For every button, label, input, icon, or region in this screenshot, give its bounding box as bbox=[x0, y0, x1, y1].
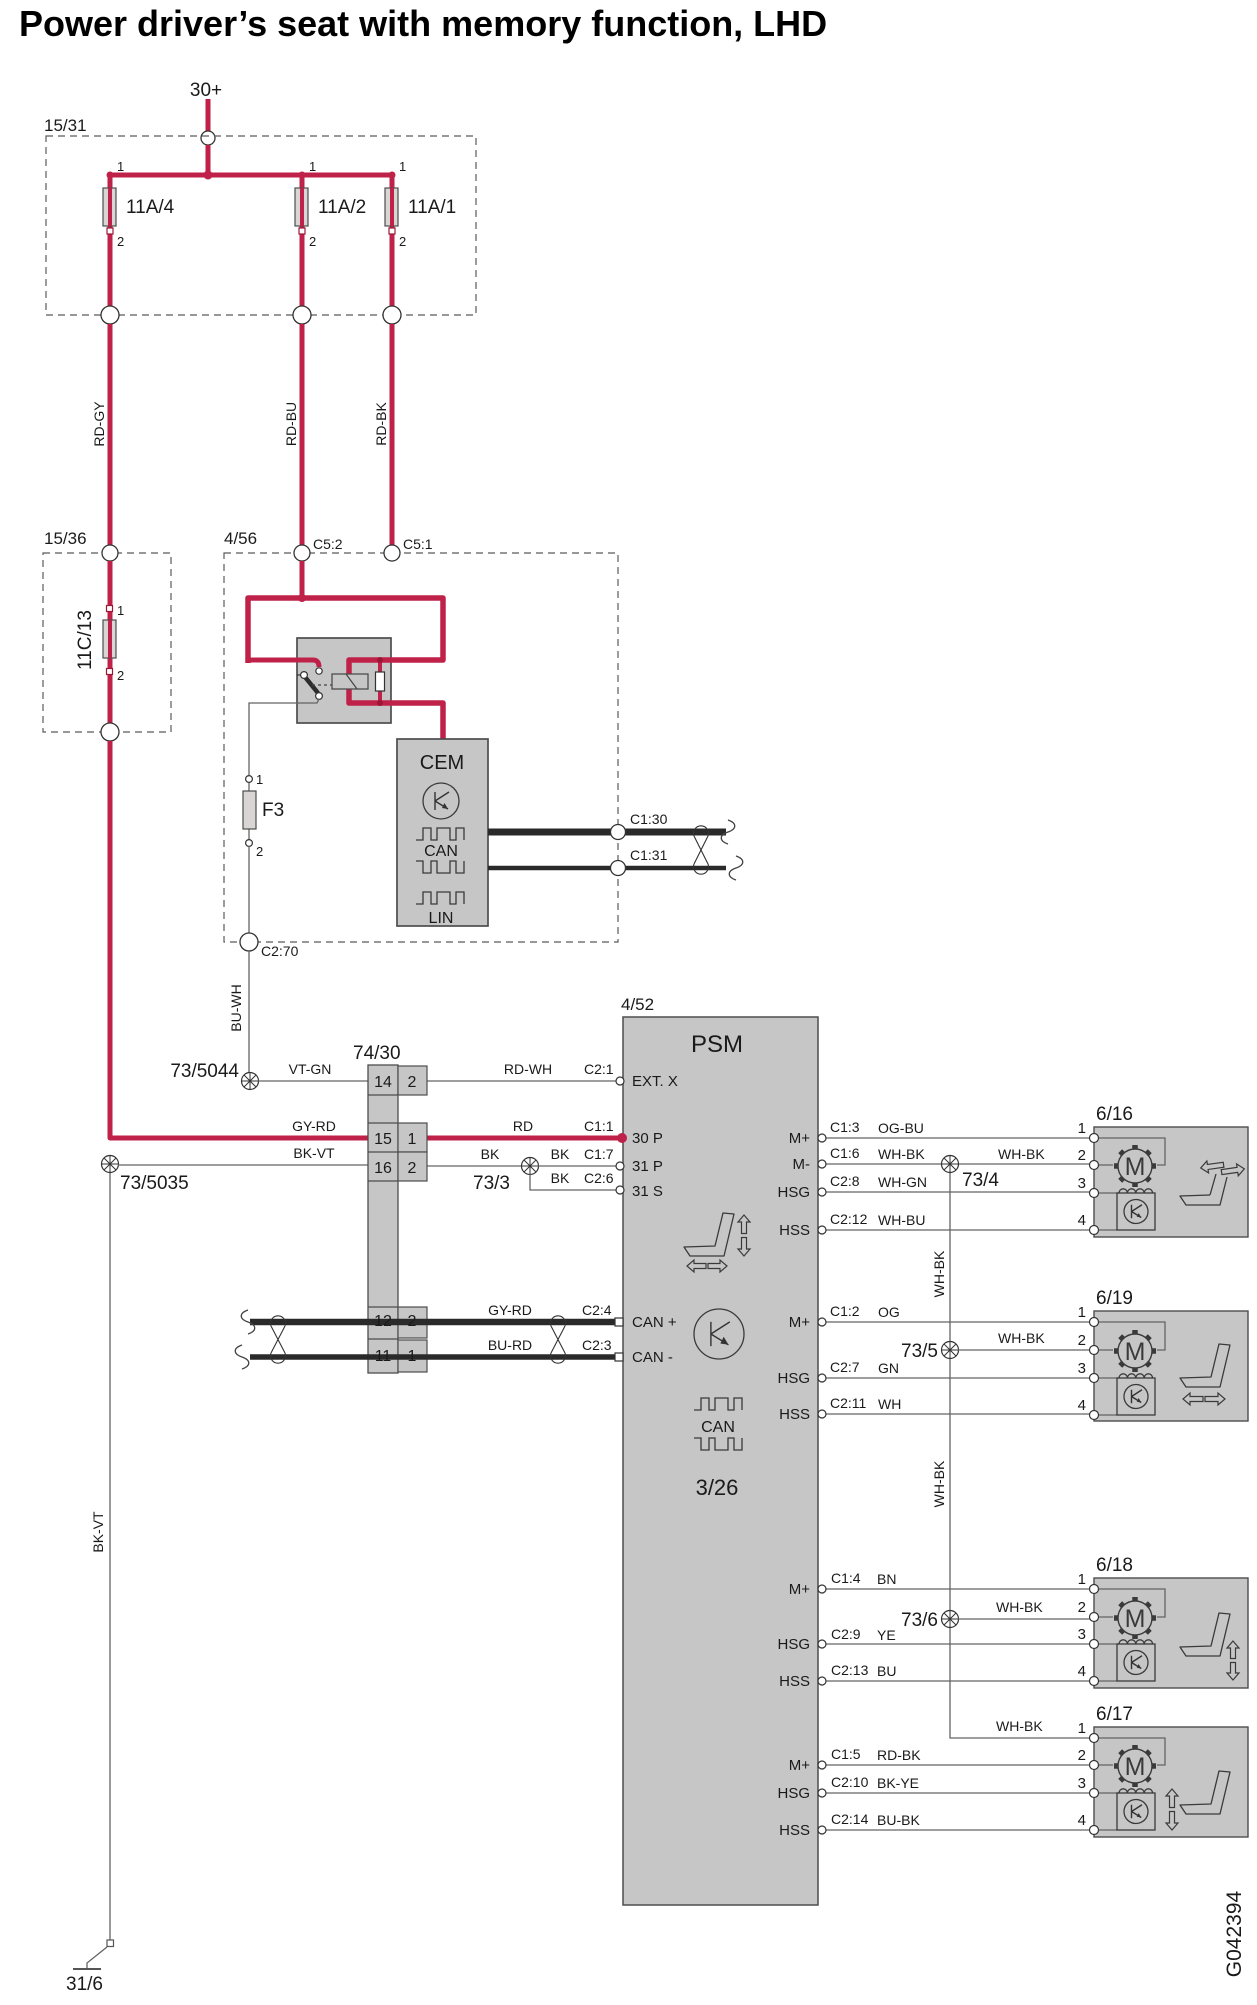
svg-text:HSS: HSS bbox=[779, 1822, 810, 1839]
svg-text:1: 1 bbox=[117, 159, 124, 174]
fuse F3 bbox=[246, 776, 253, 783]
wire GY-RD / RD main feed to PSM bbox=[110, 741, 620, 1138]
twisted pair symbol bbox=[694, 826, 709, 836]
6/17 pin 2 bbox=[1090, 1761, 1099, 1770]
svg-text:73/5035: 73/5035 bbox=[120, 1173, 189, 1194]
svg-text:C2:12: C2:12 bbox=[830, 1211, 868, 1227]
svg-text:4/56: 4/56 bbox=[224, 529, 257, 548]
svg-text:4: 4 bbox=[1078, 1397, 1086, 1414]
connector C5:1 bbox=[384, 545, 400, 561]
wire WH-BK to 6/18 bbox=[958, 1618, 1090, 1620]
pin PSM right y=1589 bbox=[818, 1585, 826, 1593]
connector 74/30 pin 16 bbox=[398, 1152, 427, 1181]
svg-text:M: M bbox=[1125, 1753, 1146, 1781]
wire OG-BU C1:3 bbox=[822, 1137, 1090, 1139]
svg-text:1: 1 bbox=[1078, 1571, 1086, 1588]
svg-text:6/19: 6/19 bbox=[1096, 1288, 1133, 1309]
svg-text:31 S: 31 S bbox=[632, 1183, 663, 1200]
6/17 pin 1 bbox=[1090, 1734, 1099, 1743]
svg-text:C2:8: C2:8 bbox=[830, 1173, 860, 1189]
svg-text:WH-BK: WH-BK bbox=[998, 1146, 1045, 1162]
junction dot bbox=[299, 172, 306, 179]
svg-text:RD-BU: RD-BU bbox=[283, 402, 299, 446]
6/16 position sensor bbox=[1117, 1193, 1155, 1230]
svg-text:30 P: 30 P bbox=[632, 1130, 663, 1147]
svg-text:WH-BU: WH-BU bbox=[878, 1212, 925, 1228]
connector circle 15/36 top bbox=[102, 545, 118, 561]
svg-text:C1:7: C1:7 bbox=[584, 1146, 614, 1162]
svg-text:VT-GN: VT-GN bbox=[289, 1061, 332, 1077]
svg-text:31 P: 31 P bbox=[632, 1158, 663, 1175]
6/16 pin 3 bbox=[1090, 1189, 1099, 1198]
wire bus 30+ bbox=[110, 173, 392, 178]
PSM CAN symbol bbox=[694, 1398, 742, 1410]
svg-text:C5:1: C5:1 bbox=[403, 536, 433, 552]
svg-text:WH-GN: WH-GN bbox=[878, 1174, 927, 1190]
svg-text:EXT. X: EXT. X bbox=[632, 1073, 678, 1090]
svg-text:G042394: G042394 bbox=[1223, 1890, 1246, 1977]
svg-text:3: 3 bbox=[1078, 1360, 1086, 1377]
6/19 seat icon bbox=[1180, 1344, 1230, 1387]
svg-text:4: 4 bbox=[1078, 1812, 1086, 1829]
fuse 11C/13 bbox=[107, 606, 113, 612]
svg-text:C1:30: C1:30 bbox=[630, 811, 668, 827]
svg-text:M+: M+ bbox=[789, 1130, 810, 1147]
svg-text:73/3: 73/3 bbox=[473, 1173, 510, 1194]
wire F3 to C2:70 bbox=[248, 846, 250, 933]
6/19 pin 3 bbox=[1090, 1374, 1099, 1383]
junction dot relay bus bbox=[298, 594, 306, 602]
svg-text:M+: M+ bbox=[789, 1314, 810, 1331]
svg-text:C2:3: C2:3 bbox=[582, 1337, 612, 1353]
svg-text:3/26: 3/26 bbox=[696, 1475, 739, 1500]
connector 74/30 pin 12 bbox=[398, 1307, 427, 1338]
svg-text:M+: M+ bbox=[789, 1581, 810, 1598]
CEM CAN symbol bbox=[416, 828, 464, 840]
relay suppression resistor bbox=[378, 660, 382, 672]
svg-text:2: 2 bbox=[408, 1313, 417, 1330]
wire WH-BK trunk bbox=[950, 1164, 1090, 1738]
svg-text:LIN: LIN bbox=[429, 910, 454, 927]
wire 30+ feed bbox=[206, 99, 211, 131]
svg-text:C2:1: C2:1 bbox=[584, 1061, 614, 1077]
wire BN C1:4 bbox=[822, 1588, 1090, 1590]
svg-text:M: M bbox=[1125, 1338, 1146, 1366]
svg-text:C1:1: C1:1 bbox=[584, 1118, 614, 1134]
svg-text:11A/4: 11A/4 bbox=[126, 197, 175, 218]
connector circle bottom of 15/31 (11A/4) bbox=[101, 306, 119, 324]
relay switch contact bbox=[316, 668, 322, 674]
wire BK to 31S bbox=[530, 1174, 619, 1190]
svg-text:2: 2 bbox=[117, 234, 124, 249]
svg-text:C1:4: C1:4 bbox=[831, 1570, 861, 1586]
pin PSM right y=1765 bbox=[818, 1761, 826, 1769]
6/17 motor M bbox=[1118, 1749, 1152, 1783]
fuse 11A/1 bbox=[390, 175, 395, 306]
svg-text:11A/1: 11A/1 bbox=[408, 197, 456, 218]
wire YE C2:9 bbox=[822, 1643, 1090, 1645]
svg-text:2: 2 bbox=[256, 844, 263, 859]
6/19 pin 1 bbox=[1090, 1318, 1099, 1327]
pin PSM right y=1164 bbox=[818, 1160, 826, 1168]
svg-text:1: 1 bbox=[408, 1131, 417, 1148]
wire BU-BK C2:14 bbox=[822, 1829, 1090, 1831]
relay switch arm bbox=[297, 674, 304, 676]
svg-text:M+: M+ bbox=[789, 1757, 810, 1774]
wire break bbox=[721, 820, 735, 844]
splice 73/6 bbox=[942, 1611, 959, 1628]
twisted pair symbol bbox=[551, 1316, 566, 1326]
pin PSM right y=1793 bbox=[818, 1789, 826, 1797]
relay coil bbox=[332, 674, 368, 689]
6/16 pin 4 bbox=[1090, 1226, 1099, 1235]
svg-text:M-: M- bbox=[793, 1156, 811, 1173]
svg-text:BK: BK bbox=[551, 1146, 570, 1162]
svg-text:2: 2 bbox=[1078, 1332, 1086, 1349]
svg-text:RD-BK: RD-BK bbox=[877, 1747, 921, 1763]
connector C1:30 bbox=[611, 825, 626, 840]
connector C5:2 bbox=[294, 545, 310, 561]
pin PSM right y=1378 bbox=[818, 1374, 826, 1382]
wire CAN + GY-RD bbox=[250, 1319, 617, 1326]
svg-text:BU-WH: BU-WH bbox=[228, 984, 244, 1031]
wire OG C1:2 bbox=[822, 1321, 1090, 1323]
svg-text:WH: WH bbox=[878, 1396, 901, 1412]
svg-text:1: 1 bbox=[408, 1348, 417, 1365]
connector circle at 15/31 top bbox=[201, 131, 215, 145]
6/19 motor wiring bbox=[1094, 1322, 1165, 1350]
svg-text:WH-BK: WH-BK bbox=[998, 1330, 1045, 1346]
CEM transistor symbol bbox=[423, 783, 459, 819]
svg-text:HSS: HSS bbox=[779, 1406, 810, 1423]
svg-text:14: 14 bbox=[374, 1074, 392, 1091]
svg-text:HSG: HSG bbox=[777, 1785, 810, 1802]
connector 74/30 pin 14 bbox=[398, 1066, 427, 1095]
svg-text:HSG: HSG bbox=[777, 1370, 810, 1387]
wire RD-BK C1:5 bbox=[822, 1764, 1090, 1766]
pin PSM right y=1230 bbox=[818, 1226, 826, 1234]
pin PSM right y=1192 bbox=[818, 1188, 826, 1196]
6/16 motor M bbox=[1118, 1149, 1152, 1183]
svg-text:4: 4 bbox=[1078, 1663, 1086, 1680]
svg-text:BU: BU bbox=[877, 1663, 896, 1679]
svg-text:12: 12 bbox=[374, 1313, 392, 1330]
svg-text:WH-BK: WH-BK bbox=[878, 1146, 925, 1162]
svg-text:GN: GN bbox=[878, 1360, 899, 1376]
wire into fuse box bbox=[206, 145, 211, 177]
svg-text:Power driver’s seat with memor: Power driver’s seat with memory function… bbox=[19, 3, 827, 44]
svg-text:15: 15 bbox=[374, 1131, 392, 1148]
svg-text:2: 2 bbox=[1078, 1599, 1086, 1616]
wire CAN high C1:30 bbox=[488, 829, 726, 836]
svg-text:C2:70: C2:70 bbox=[261, 943, 299, 959]
wire switch feed bbox=[246, 660, 319, 667]
svg-text:2: 2 bbox=[1078, 1147, 1086, 1164]
wire BK-YE C2:10 bbox=[822, 1792, 1090, 1794]
relay 4/56 body bbox=[297, 638, 391, 723]
splice 73/5 bbox=[942, 1342, 959, 1359]
pin C2:1 bbox=[616, 1077, 624, 1085]
svg-text:4: 4 bbox=[1078, 1212, 1086, 1229]
6/19 pin 2 bbox=[1090, 1346, 1099, 1355]
wire BK to 31P bbox=[538, 1165, 619, 1167]
svg-text:BN: BN bbox=[877, 1571, 896, 1587]
svg-text:C1:2: C1:2 bbox=[830, 1303, 860, 1319]
wire RD-GY bbox=[108, 324, 113, 545]
svg-text:6/17: 6/17 bbox=[1096, 1704, 1133, 1725]
svg-text:2: 2 bbox=[1078, 1747, 1086, 1764]
6/16 pin 1 bbox=[1090, 1134, 1099, 1143]
wire CAN - BU-RD bbox=[250, 1354, 617, 1360]
svg-text:30+: 30+ bbox=[190, 80, 222, 101]
svg-text:CEM: CEM bbox=[420, 752, 464, 774]
wire break bbox=[235, 1345, 249, 1369]
svg-text:BK-VT: BK-VT bbox=[293, 1145, 335, 1161]
svg-text:WH-BK: WH-BK bbox=[931, 1250, 947, 1297]
svg-text:OG-BU: OG-BU bbox=[878, 1120, 924, 1136]
wire WH-BK to 6/19 bbox=[958, 1349, 1090, 1351]
wire WH-GN C2:8 bbox=[822, 1191, 1090, 1193]
wire through 11C/13 bbox=[108, 561, 113, 724]
6/18 motor M bbox=[1118, 1601, 1152, 1635]
connector 74/30 pin 15 bbox=[398, 1123, 427, 1152]
connector 74/30 pin 11 bbox=[398, 1340, 427, 1372]
fuse 11A/4 bbox=[108, 175, 113, 306]
pin PSM right y=1138 bbox=[818, 1134, 826, 1142]
6/19 motor M bbox=[1118, 1334, 1152, 1368]
wire BK-VT to ground bbox=[109, 1173, 111, 1940]
svg-text:BU-RD: BU-RD bbox=[488, 1337, 532, 1353]
relay coil link (dashed) bbox=[312, 684, 332, 686]
wire BK to 73/3 bbox=[427, 1165, 522, 1167]
svg-text:3: 3 bbox=[1078, 1775, 1086, 1792]
svg-text:CAN: CAN bbox=[701, 1419, 735, 1436]
splice 73/3 bbox=[522, 1158, 539, 1175]
svg-text:4/52: 4/52 bbox=[621, 995, 654, 1014]
6/16 seat icon bbox=[1180, 1177, 1227, 1205]
svg-text:GY-RD: GY-RD bbox=[292, 1118, 336, 1134]
ground pin bbox=[107, 1940, 114, 1947]
svg-text:1: 1 bbox=[399, 159, 406, 174]
6/17 seat icon bbox=[1180, 1771, 1230, 1814]
pin PSM right y=1830 bbox=[818, 1826, 826, 1834]
svg-text:WH-BK: WH-BK bbox=[996, 1599, 1043, 1615]
wire break bbox=[729, 856, 743, 880]
svg-text:C2:4: C2:4 bbox=[582, 1302, 612, 1318]
6/18 pin 1 bbox=[1090, 1585, 1099, 1594]
pin PSM right y=1414 bbox=[818, 1410, 826, 1418]
svg-text:2: 2 bbox=[408, 1160, 417, 1177]
svg-text:WH-BK: WH-BK bbox=[996, 1718, 1043, 1734]
svg-text:C1:3: C1:3 bbox=[830, 1119, 860, 1135]
svg-text:C1:31: C1:31 bbox=[630, 847, 668, 863]
svg-text:C2:6: C2:6 bbox=[584, 1170, 614, 1186]
control module CEM bbox=[397, 739, 488, 926]
wire relay loop bbox=[248, 598, 443, 740]
6/18 pin 2 bbox=[1090, 1613, 1099, 1622]
svg-text:PSM: PSM bbox=[691, 1031, 743, 1058]
svg-text:2: 2 bbox=[408, 1074, 417, 1091]
6/19 pin 4 bbox=[1090, 1411, 1099, 1420]
ground 31/6 bbox=[73, 1968, 101, 1970]
svg-text:HSG: HSG bbox=[777, 1184, 810, 1201]
svg-text:C2:13: C2:13 bbox=[831, 1662, 869, 1678]
wire BU-WH bbox=[248, 951, 250, 1073]
wire break bbox=[241, 1310, 255, 1334]
fuse 11A/2 bbox=[300, 175, 305, 306]
svg-text:2: 2 bbox=[117, 668, 124, 683]
splice 73/5035 bbox=[102, 1156, 119, 1173]
pin PSM right y=1644 bbox=[818, 1640, 826, 1648]
svg-text:15/36: 15/36 bbox=[44, 529, 87, 548]
svg-text:1: 1 bbox=[1078, 1120, 1086, 1137]
svg-text:BK: BK bbox=[551, 1170, 570, 1186]
svg-text:RD-GY: RD-GY bbox=[91, 401, 107, 447]
svg-text:M: M bbox=[1125, 1153, 1146, 1181]
svg-text:C1:6: C1:6 bbox=[830, 1145, 860, 1161]
wire WH-BK C1:6 via 73/4 bbox=[822, 1163, 1090, 1165]
wire GN C2:7 bbox=[822, 1377, 1090, 1379]
pin C2:6 bbox=[616, 1186, 624, 1194]
svg-text:C5:2: C5:2 bbox=[313, 536, 343, 552]
svg-text:F3: F3 bbox=[262, 800, 284, 821]
svg-text:RD-BK: RD-BK bbox=[373, 402, 389, 446]
junction dot bbox=[389, 172, 396, 179]
wire CAN low C1:31 bbox=[488, 866, 726, 871]
connector circle bottom of 15/31 (11A/2) bbox=[293, 306, 311, 324]
pin C1:7 bbox=[616, 1162, 624, 1170]
svg-text:CAN +: CAN + bbox=[632, 1314, 677, 1331]
svg-text:HSS: HSS bbox=[779, 1222, 810, 1239]
svg-text:BU-BK: BU-BK bbox=[877, 1812, 920, 1828]
pin C1:1 (30P) bbox=[617, 1133, 627, 1143]
6/16 motor wiring bbox=[1094, 1138, 1165, 1165]
svg-text:73/4: 73/4 bbox=[962, 1170, 999, 1191]
svg-text:RD: RD bbox=[513, 1118, 533, 1134]
wire RD-BU bbox=[300, 324, 305, 545]
junction dot bbox=[107, 172, 114, 179]
svg-text:31/6: 31/6 bbox=[66, 1974, 103, 1995]
svg-text:11: 11 bbox=[375, 1348, 392, 1365]
6/18 position sensor bbox=[1117, 1644, 1155, 1681]
PSM seat icon bbox=[684, 1213, 734, 1256]
svg-text:6/18: 6/18 bbox=[1096, 1555, 1133, 1576]
6/18 pin 4 bbox=[1090, 1677, 1099, 1686]
svg-text:1: 1 bbox=[1078, 1304, 1086, 1321]
svg-text:C2:10: C2:10 bbox=[831, 1774, 869, 1790]
svg-text:C2:11: C2:11 bbox=[830, 1395, 867, 1411]
wire to ground bbox=[87, 1947, 107, 1969]
wire BU C2:13 bbox=[822, 1680, 1090, 1682]
svg-text:C2:9: C2:9 bbox=[831, 1626, 861, 1642]
6/17 pin 3 bbox=[1090, 1789, 1099, 1798]
svg-text:1: 1 bbox=[1078, 1720, 1086, 1737]
pin PSM right y=1322 bbox=[818, 1318, 826, 1326]
pin PSM right y=1681 bbox=[818, 1677, 826, 1685]
svg-text:M: M bbox=[1125, 1605, 1146, 1633]
svg-text:C1:5: C1:5 bbox=[831, 1746, 861, 1762]
6/19 position sensor bbox=[1117, 1378, 1155, 1415]
svg-text:BK-YE: BK-YE bbox=[877, 1775, 919, 1791]
svg-text:3: 3 bbox=[1078, 1626, 1086, 1643]
wire C5:2 to relay bus bbox=[300, 561, 305, 598]
svg-text:73/5044: 73/5044 bbox=[170, 1061, 239, 1082]
svg-text:C2:7: C2:7 bbox=[830, 1359, 860, 1375]
pin C2:4 bbox=[615, 1318, 623, 1326]
pin C2:3 bbox=[615, 1353, 623, 1361]
wire VT-GN bbox=[258, 1080, 368, 1082]
svg-text:74/30: 74/30 bbox=[353, 1043, 401, 1064]
svg-text:1: 1 bbox=[117, 603, 124, 618]
svg-text:WH-BK: WH-BK bbox=[931, 1460, 947, 1507]
6/18 seat icon bbox=[1180, 1613, 1230, 1656]
CEM LIN symbol bbox=[416, 892, 464, 904]
connector C2:70 bbox=[240, 933, 258, 951]
svg-text:16: 16 bbox=[374, 1160, 392, 1177]
splice 73/4 bbox=[942, 1156, 959, 1173]
svg-text:BK-VT: BK-VT bbox=[90, 1511, 106, 1553]
svg-text:11C/13: 11C/13 bbox=[75, 610, 96, 670]
svg-text:15/31: 15/31 bbox=[44, 116, 87, 135]
svg-text:11A/2: 11A/2 bbox=[318, 197, 366, 218]
svg-text:RD-WH: RD-WH bbox=[504, 1061, 552, 1077]
6/17 pin 4 bbox=[1090, 1826, 1099, 1835]
svg-text:2: 2 bbox=[399, 234, 406, 249]
svg-text:OG: OG bbox=[878, 1304, 900, 1320]
svg-text:YE: YE bbox=[877, 1627, 896, 1643]
svg-text:C2:14: C2:14 bbox=[831, 1811, 869, 1827]
svg-text:3: 3 bbox=[1078, 1175, 1086, 1192]
svg-text:HSG: HSG bbox=[777, 1636, 810, 1653]
wire WH-BU C2:12 bbox=[822, 1229, 1090, 1231]
wire WH C2:11 bbox=[822, 1413, 1090, 1415]
svg-text:CAN -: CAN - bbox=[632, 1349, 673, 1366]
svg-text:BK: BK bbox=[481, 1146, 500, 1162]
PSM transistor symbol bbox=[694, 1309, 744, 1359]
wire switch to F3 bbox=[249, 699, 319, 775]
svg-text:1: 1 bbox=[309, 159, 316, 174]
wire BK-VT to 74/30 bbox=[118, 1164, 368, 1166]
svg-text:HSS: HSS bbox=[779, 1673, 810, 1690]
svg-text:GY-RD: GY-RD bbox=[488, 1302, 532, 1318]
connector circle bottom of 15/31 (11A/1) bbox=[383, 306, 401, 324]
connector C1:31 bbox=[611, 861, 626, 876]
junction dot bbox=[204, 171, 213, 180]
wire RD-BK bbox=[390, 324, 395, 545]
svg-text:1: 1 bbox=[256, 772, 263, 787]
svg-text:73/5: 73/5 bbox=[901, 1341, 938, 1362]
6/16 pin 2 bbox=[1090, 1161, 1099, 1170]
connector circle 15/36 bottom bbox=[101, 723, 119, 741]
6/17 motor wiring bbox=[1094, 1738, 1165, 1765]
svg-text:6/16: 6/16 bbox=[1096, 1104, 1133, 1125]
6/18 pin 3 bbox=[1090, 1640, 1099, 1649]
wire RD-WH bbox=[427, 1080, 619, 1082]
svg-text:CAN: CAN bbox=[424, 843, 458, 860]
twisted pair symbol bbox=[271, 1316, 286, 1326]
svg-text:2: 2 bbox=[309, 234, 316, 249]
svg-text:73/6: 73/6 bbox=[901, 1610, 938, 1631]
6/17 position sensor bbox=[1117, 1793, 1155, 1830]
6/18 motor wiring bbox=[1094, 1589, 1165, 1617]
